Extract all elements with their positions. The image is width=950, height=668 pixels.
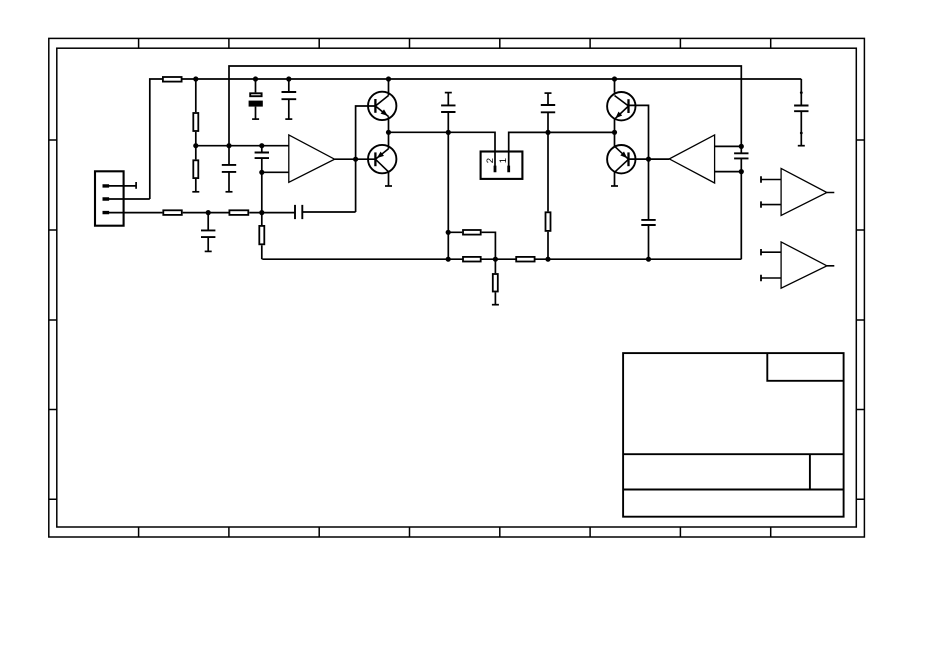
junction Q3 emitter node (612, 130, 617, 135)
wire R2 column (195, 79, 197, 159)
wire feedback loop top (229, 66, 741, 146)
wire U2 lower right stub (715, 171, 742, 173)
junction input line at loop (226, 143, 231, 148)
wire J1 pin 3 row (103, 212, 295, 214)
svg-text:1: 1 (498, 158, 509, 163)
resistor R6 (259, 226, 264, 244)
junction input line at R2 (193, 143, 198, 148)
junction U2 lower stub (739, 169, 744, 174)
capacitor C6 series coupling (295, 205, 302, 219)
open end marker pin 1 (135, 182, 137, 189)
wire Q3 Q4 column (614, 79, 616, 186)
resistor R4 (163, 210, 182, 215)
wire R3 open stub (195, 179, 197, 192)
junction pin3 row at C5 (206, 210, 211, 215)
wire op-amp U1 non-inverting input line (196, 145, 289, 147)
wire supply rail top (183, 78, 802, 80)
wire J1 pin 1 stub (103, 185, 136, 187)
junction bus at R11 (545, 257, 550, 262)
open end marker Q2 collector (385, 185, 392, 187)
wire C9 column (648, 159, 650, 259)
resistor R8 (463, 257, 481, 262)
open end marker C3 (226, 191, 233, 193)
wire node C7 down to bus (447, 132, 449, 259)
capacitor C5 (201, 230, 215, 237)
buffer U3 (761, 168, 834, 215)
junction U2 upper stub (739, 144, 744, 149)
capacitor C8 (541, 105, 555, 112)
wire J2 pin 1 to node between Q3 and Q4 (509, 132, 615, 172)
junction R7 left (446, 230, 451, 235)
junction C7 node (446, 130, 451, 135)
resistor R5 (229, 210, 248, 215)
capacitor C3 (222, 165, 236, 172)
svg-text:2: 2 (485, 158, 496, 163)
wire bottom return bus (262, 258, 741, 260)
capacitor C1 electrolytic plates (250, 93, 261, 96)
wire J1 pin 2 inside (103, 198, 150, 200)
resistor R11 (546, 212, 551, 231)
capacitor C9 (641, 220, 655, 225)
open end marker C5 (205, 250, 212, 252)
resistor R1 (163, 77, 182, 82)
open end marker Q4 collector (611, 185, 618, 187)
open end marker R10 (492, 304, 499, 306)
junction on rail at C1 (253, 76, 258, 81)
capacitor C4 (255, 153, 269, 159)
wire supply rail riser from J1 pin 2 (150, 79, 162, 199)
wire R6 column (261, 172, 263, 259)
small node dot below C11 (800, 132, 803, 135)
resistor R7 (463, 230, 481, 235)
junction bus at R10 (493, 257, 498, 262)
junction bus at C9 (646, 257, 651, 262)
wire C11 branch (800, 79, 802, 146)
resistor R2 (193, 113, 198, 131)
open end marker C7 (445, 92, 452, 94)
junction pin3 row at R6 (259, 210, 264, 215)
capacitor C10 (734, 153, 748, 158)
resistor R9 (516, 257, 534, 262)
op-amp U2 reversed (669, 135, 714, 183)
junction on rail at Q3 (612, 76, 617, 81)
wire U2 upper right stub (715, 145, 742, 147)
wire C10 column (740, 146, 742, 259)
wire C1 branch (255, 79, 257, 119)
junction U2 output node (646, 157, 651, 162)
junction Q1 emitter node (386, 130, 391, 135)
wire R10 to open stub (494, 259, 496, 305)
small node dot above C11 (800, 91, 803, 94)
transistor Q1 NPN (368, 92, 396, 120)
wire C2 branch (288, 79, 290, 119)
capacitor C11 (794, 106, 808, 112)
open end marker C11 (798, 145, 805, 147)
wire C4 between input lines (261, 146, 263, 173)
connector J2 (481, 152, 523, 179)
connector J1 (95, 171, 124, 225)
open end marker R3 (192, 191, 199, 193)
wire Q3/Q4 bases to U2 output (629, 105, 670, 159)
junction inverting input at C4 (259, 170, 264, 175)
wire C6 to U1 output node (302, 211, 355, 213)
wire op-amp U1 inverting input line (262, 171, 289, 173)
wire C8 node through R11 to bus (547, 132, 549, 259)
open end marker C2 (285, 118, 292, 120)
junction on rail at C2 (286, 76, 291, 81)
wire C5 branch (207, 213, 209, 252)
resistor R3 (193, 160, 198, 178)
wire C8 branch (547, 93, 549, 132)
wire U1 output to Q1/Q2 bases (335, 106, 376, 212)
wire Q1 Q2 column (388, 79, 390, 186)
wire R7 feedback branch (448, 232, 495, 259)
wire C3 branch (228, 146, 230, 192)
buffer U4 (761, 242, 834, 288)
transistor Q2 PNP (368, 145, 396, 173)
junction U1 output (353, 157, 358, 162)
transistor Q4 PNP (607, 145, 635, 173)
junction input line at C4 (259, 143, 264, 148)
junction on rail at Q1 (386, 76, 391, 81)
title block (623, 353, 844, 517)
wire C7 branch (447, 93, 449, 133)
open end marker C8 (545, 92, 552, 94)
wire node between Q1 and Q2 to J2 pin 2 (389, 132, 496, 172)
resistor R10 (493, 274, 498, 292)
open end marker C1 (252, 118, 259, 120)
capacitor C7 (441, 105, 455, 112)
junction C8 node (545, 130, 550, 135)
junction on rail at R1 (193, 76, 198, 81)
capacitor C2 (282, 92, 297, 99)
transistor Q3 NPN (607, 92, 635, 120)
junction bus at C7 column (446, 257, 451, 262)
op-amp U1 (289, 135, 335, 182)
